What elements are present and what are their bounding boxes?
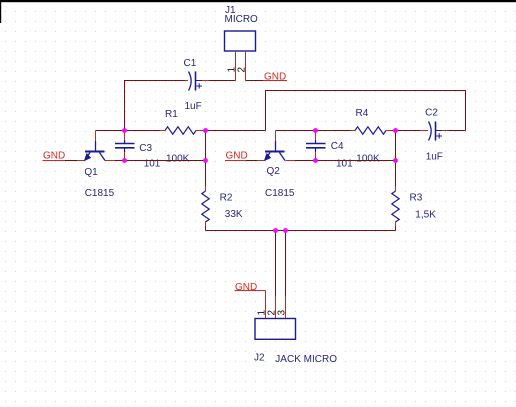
- wire vertical x=395.5: [395, 131, 397, 187]
- wire R3 bottom corner: [395, 226, 397, 231]
- capacitor C1: [184, 58, 203, 112]
- wire junction to C2 left: [396, 130, 429, 132]
- connector J2: [254, 319, 337, 366]
- J1 pin 1: [227, 51, 238, 81]
- GND net label top: [263, 72, 287, 83]
- wire vertical x=205.5 R1right/collector/R2: [205, 131, 207, 187]
- junction C4 top: [313, 128, 318, 133]
- junction C3 top: [122, 128, 127, 133]
- svg-text:C4: C4: [331, 141, 344, 152]
- J2 pin 2: [267, 231, 278, 319]
- wire GND to Q1 emitter: [65, 160, 85, 162]
- J1 pin 2: [237, 51, 248, 81]
- wire Q1 base net y=130.5: [96, 130, 161, 132]
- svg-text:R4: R4: [356, 108, 369, 119]
- resistor R4: [350, 108, 392, 165]
- svg-text:J2: J2: [254, 353, 265, 364]
- J2 pin 3: [277, 231, 288, 319]
- svg-text:MICRO: MICRO: [225, 14, 259, 25]
- transistor Q1: [84, 131, 115, 200]
- svg-text:3: 3: [277, 310, 288, 316]
- junction collector column x=395.5: [393, 158, 398, 163]
- wire C2 right plate to loop: [436, 130, 466, 132]
- svg-text:2: 2: [237, 67, 248, 73]
- resistor R1: [160, 109, 203, 165]
- svg-text:1uF: 1uF: [185, 101, 202, 112]
- transistor Q2: [264, 131, 295, 200]
- resistor R2: [202, 186, 243, 226]
- svg-text:100K: 100K: [166, 154, 190, 165]
- junction collector column x=205.5: [203, 158, 208, 163]
- svg-text:GND: GND: [43, 151, 65, 162]
- svg-text:R3: R3: [410, 193, 423, 204]
- wire J1 pin2 to GND stub: [246, 80, 264, 82]
- junction J2 pin2 top: [273, 228, 278, 233]
- svg-text:C1815: C1815: [265, 188, 295, 199]
- svg-text:Q2: Q2: [267, 166, 281, 177]
- wire R2 bottom corner: [205, 226, 207, 231]
- wire C1 left to corner: [124, 80, 188, 82]
- svg-text:R1: R1: [165, 109, 178, 120]
- GND net label bottom: [235, 282, 266, 293]
- svg-text:33K: 33K: [225, 209, 243, 220]
- wire Q2 collector row: [286, 160, 396, 162]
- svg-text:C1: C1: [184, 58, 197, 69]
- junction R1 right: [203, 128, 208, 133]
- junction C3 bottom: [122, 158, 127, 163]
- wire C1 right plate to J1 pin1: [196, 80, 236, 82]
- junction C4 bottom: [313, 158, 318, 163]
- J2 pin 1: [257, 291, 268, 319]
- svg-text:1,5K: 1,5K: [415, 210, 436, 221]
- resistor R3: [392, 186, 436, 226]
- capacitor C3: [115, 131, 161, 170]
- wire loop up-over-down to C2: [266, 91, 466, 131]
- wire Q1 collector row: [105, 160, 206, 162]
- wire Q2 base net y=130.5: [276, 130, 351, 132]
- svg-text:C2: C2: [425, 108, 438, 119]
- svg-text:R2: R2: [220, 193, 233, 204]
- wire R4 right to junction: [392, 130, 396, 132]
- wire R1 right to corner x=265.5: [203, 130, 266, 132]
- svg-text:C1815: C1815: [85, 188, 115, 199]
- junction J2 pin3 top: [283, 228, 288, 233]
- wire GND to Q2 emitter: [246, 160, 265, 162]
- GND net label stage2: [225, 151, 248, 162]
- wire vertical x=124.5 down to base net: [124, 81, 126, 131]
- svg-text:1uF: 1uF: [426, 152, 443, 163]
- capacitor C4: [306, 131, 353, 170]
- svg-text:C3: C3: [139, 143, 152, 154]
- svg-text:100K: 100K: [356, 154, 380, 165]
- svg-text:JACK MICRO: JACK MICRO: [275, 354, 337, 365]
- capacitor C2: [425, 108, 443, 163]
- wire bottom rail y=230.5: [206, 230, 396, 232]
- junction R4 right: [393, 128, 398, 133]
- svg-text:GND: GND: [226, 151, 248, 162]
- GND net label stage1: [43, 151, 66, 162]
- svg-text:Q1: Q1: [84, 167, 98, 178]
- svg-text:GND: GND: [235, 282, 257, 293]
- connector J1: [225, 5, 259, 51]
